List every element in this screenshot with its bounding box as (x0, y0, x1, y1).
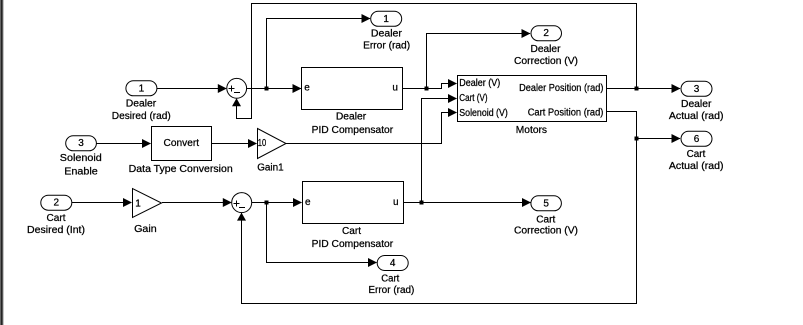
output port 3 Dealer Actual (rad) (669, 81, 724, 122)
svg-text:4: 4 (390, 258, 396, 269)
wire: Cart Error branch to Out4 (267, 203, 378, 268)
svg-text:Gain1: Gain1 (257, 163, 284, 174)
svg-text:Dealer: Dealer (126, 99, 157, 110)
block: Motors (458, 76, 607, 136)
svg-text:Actual (rad): Actual (rad) (669, 111, 724, 122)
svg-text:Dealer: Dealer (681, 99, 712, 110)
output port 6 Cart Actual (rad) (669, 131, 724, 172)
svg-text:Dealer: Dealer (371, 29, 403, 40)
output port 1 Dealer Error (rad) (363, 11, 410, 51)
svg-text:u: u (393, 197, 399, 208)
svg-text:5: 5 (543, 198, 549, 209)
svg-text:Cart: Cart (47, 213, 66, 224)
svg-text:3: 3 (78, 138, 84, 149)
input port 2 Cart Desired (Int) (27, 195, 85, 236)
wire: Motors Cart Position to Out6, junction dot (606, 112, 681, 144)
input port 3 Solenoid Enable (60, 136, 102, 178)
svg-text:Motors: Motors (516, 125, 547, 136)
svg-text:Correction (V): Correction (V) (514, 56, 578, 67)
svg-text:Dealer Position (rad): Dealer Position (rad) (519, 83, 603, 94)
block: Cart PID Compensator (303, 182, 404, 251)
wire: In3 Solenoid Enable to Data Type Conversion (96, 139, 151, 148)
wire: Dealer PID output to Motors Dealer(V), junction dot (403, 79, 458, 91)
svg-text:Correction (V): Correction (V) (514, 226, 578, 237)
svg-text:u: u (392, 83, 398, 94)
svg-text:Gain: Gain (134, 224, 157, 235)
svg-text:Desired (rad): Desired (rad) (112, 111, 171, 122)
wire: Gain to Sum2 (162, 198, 232, 207)
svg-text:Dealer: Dealer (336, 112, 367, 123)
wire: Cart correction branch to Motors Cart(V) (422, 94, 458, 203)
block: Gain (gain 1) (133, 189, 162, 236)
svg-text:1: 1 (383, 14, 389, 25)
wire: In2 Cart Desired to Gain (72, 198, 132, 207)
svg-text:3: 3 (694, 84, 700, 95)
output port 5 Cart Correction (V) (514, 196, 578, 237)
svg-text:Actual (rad): Actual (rad) (669, 161, 724, 172)
sum junction Sum1 (Dealer) (227, 78, 247, 98)
svg-text:10: 10 (258, 138, 267, 149)
wire: Cart PID output to Out5, junction dot (403, 198, 531, 207)
svg-text:6: 6 (694, 134, 700, 145)
svg-text:Solenoid: Solenoid (60, 153, 102, 164)
svg-text:Cart (V): Cart (V) (459, 93, 487, 104)
block: Gain1 (gain 10) (257, 129, 286, 174)
svg-text:Cart: Cart (381, 274, 399, 285)
svg-text:Cart: Cart (536, 215, 555, 226)
svg-text:2: 2 (543, 28, 549, 39)
svg-text:PID Compensator: PID Compensator (312, 239, 394, 250)
svg-text:Convert: Convert (164, 138, 200, 149)
svg-text:Cart: Cart (342, 226, 361, 237)
svg-text:2: 2 (54, 198, 60, 209)
output port 2 Dealer Correction (V) (514, 26, 578, 67)
block: Data Type Conversion (Convert) (129, 127, 233, 176)
svg-text:e: e (304, 83, 310, 94)
wire: Sum2 to Cart PID input, junction dot (252, 198, 302, 207)
svg-text:Error (rad): Error (rad) (363, 41, 410, 52)
svg-text:e: e (305, 197, 311, 208)
svg-text:Desired (Int): Desired (Int) (27, 225, 85, 236)
svg-text:Solenoid (V): Solenoid (V) (459, 108, 508, 119)
sum junction Sum2 (Cart) (232, 193, 252, 213)
svg-text:Cart: Cart (687, 149, 706, 160)
svg-text:Dealer (V): Dealer (V) (459, 78, 500, 89)
svg-text:Enable: Enable (64, 167, 98, 178)
wire: In1 Dealer Desired to Sum1 (157, 84, 227, 93)
wire: dealer feedback loop to Sum1 minus (232, 4, 637, 119)
svg-text:Error (rad): Error (rad) (368, 285, 414, 296)
svg-text:1: 1 (139, 83, 145, 94)
svg-text:PID Compensator: PID Compensator (312, 125, 394, 136)
svg-text:Dealer: Dealer (531, 44, 562, 55)
block: Dealer PID Compensator (302, 68, 403, 136)
wire: Dealer Error branch to Out1 (267, 14, 371, 89)
svg-text:Cart Position (rad): Cart Position (rad) (528, 108, 604, 119)
svg-text:Data Type Conversion: Data Type Conversion (129, 164, 233, 175)
output port 4 Cart Error (rad) (368, 256, 414, 297)
wire: Dealer Correction branch to Out2 (427, 29, 531, 89)
wire: Gain1 to Motors Solenoid(V) (286, 108, 457, 144)
svg-text:1: 1 (135, 199, 141, 210)
wire: Sum1 to Dealer PID input, junction dot (247, 84, 302, 93)
input port 1 Dealer Desired (rad) (112, 81, 171, 122)
wire: cart feedback loop to Sum2 minus (237, 139, 637, 304)
wire: Motors Dealer Position to Out3, junction dot (606, 84, 681, 93)
wire: Data Type Conversion to Gain1 (212, 139, 258, 148)
